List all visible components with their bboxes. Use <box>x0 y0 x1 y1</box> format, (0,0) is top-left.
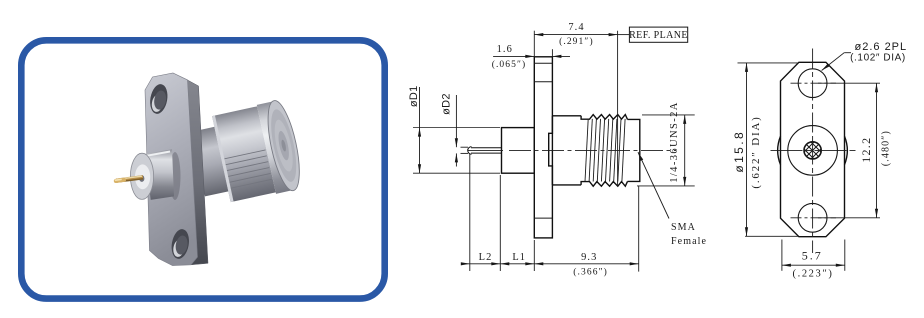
flange plate front face <box>145 73 198 266</box>
7.4 dim <box>533 31 535 57</box>
3D connector: rear barrel (rotated about axis) <box>188 98 305 209</box>
svg-text:øD2: øD2 <box>440 93 452 115</box>
arrowheads oD1 dim <box>418 128 421 137</box>
neck cylinder <box>191 127 228 197</box>
front stub cylinder <box>145 149 174 200</box>
svg-text:5.7: 5.7 <box>802 248 823 262</box>
top mounting hole <box>148 83 170 115</box>
gold pin <box>116 177 143 181</box>
end cap <box>628 119 640 181</box>
svg-text:1/4-36UNS-2A: 1/4-36UNS-2A <box>669 101 680 183</box>
L dims bottom <box>469 154 471 272</box>
arrowheads thread callout <box>683 115 686 124</box>
thread sawtooth top <box>581 115 627 120</box>
svg-text:(.622″ DIA): (.622″ DIA) <box>750 115 762 188</box>
end collar <box>257 101 292 193</box>
side bulge arcs <box>778 136 781 164</box>
svg-text:øD1: øD1 <box>408 85 420 107</box>
svg-text:L2: L2 <box>479 252 493 263</box>
1.6 dim <box>493 55 534 57</box>
arrowhead SMA leader <box>637 151 644 161</box>
svg-text:9.3: 9.3 <box>581 252 597 263</box>
insulator step on flange right face <box>549 116 553 185</box>
dimensions middle view <box>413 31 695 272</box>
thread callout <box>642 114 695 116</box>
svg-text:ø2.6 2PL: ø2.6 2PL <box>855 41 908 53</box>
centerlines right view <box>771 49 858 254</box>
pin housing cylinder (oD1) <box>502 128 535 174</box>
svg-text:12.2: 12.2 <box>859 137 873 163</box>
arrowheads oD2 dim <box>455 138 458 147</box>
centerline <box>468 149 676 151</box>
center boss circle <box>788 126 838 176</box>
svg-text:(.065″): (.065″) <box>492 59 527 70</box>
svg-text:ø15.8: ø15.8 <box>732 130 746 173</box>
svg-text:(.480″): (.480″) <box>881 130 892 166</box>
arrowheads 7.4 dim <box>534 33 543 36</box>
center pin <box>468 147 502 155</box>
svg-text:(.102″ DIA): (.102″ DIA) <box>850 52 906 63</box>
flange plate top sliver <box>153 73 188 85</box>
svg-text:REF. PLANE: REF. PLANE <box>629 30 688 41</box>
center contact hatched circle <box>804 139 821 162</box>
svg-text:(.366″): (.366″) <box>573 267 608 278</box>
oD2 extension lines <box>461 146 469 148</box>
svg-text:(.291″): (.291″) <box>559 36 594 47</box>
flange plate side face <box>188 80 209 265</box>
arrowheads L2/L1/9.3 dims <box>461 262 470 265</box>
oD1 extension lines <box>413 127 500 129</box>
SMA leader <box>638 152 669 218</box>
blue rounded frame <box>21 40 384 298</box>
end cap face <box>262 98 306 193</box>
svg-text:7.4: 7.4 <box>568 22 584 33</box>
bottom mounting hole <box>169 228 191 260</box>
knurled body <box>212 106 276 202</box>
REF PLANE box <box>629 27 687 42</box>
arrowheads ø15.8 dim <box>745 63 748 72</box>
svg-text:(.223″): (.223″) <box>793 268 834 279</box>
flange chamfer / hole lines <box>534 62 552 64</box>
flange octagon outline <box>781 62 845 236</box>
thread flank lines <box>585 119 625 182</box>
thread sawtooth bottom <box>581 181 627 186</box>
stub shadow on plate <box>170 152 181 200</box>
top mounting hole <box>798 69 827 98</box>
flange plate side view <box>534 57 552 238</box>
dimension lines right view <box>738 53 881 271</box>
arrowheads 12.2 dim <box>875 83 878 92</box>
arrowhead ø2.6 leader <box>821 64 830 72</box>
arrowheads 5.7 dim <box>782 264 791 267</box>
neck cylinder <box>549 115 640 187</box>
arrowheads 1.6 dim <box>525 55 534 58</box>
bottom mounting hole <box>798 203 827 232</box>
svg-text:SMA: SMA <box>671 222 696 233</box>
svg-text:L1: L1 <box>512 252 526 263</box>
knurl grooves <box>224 150 271 188</box>
svg-text:Female: Female <box>671 236 707 247</box>
svg-text:1.6: 1.6 <box>497 44 513 55</box>
